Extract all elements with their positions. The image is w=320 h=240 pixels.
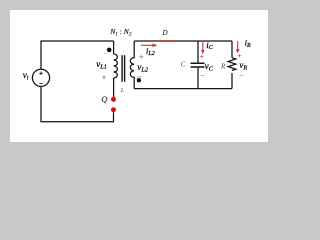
current arrow iR [236,41,240,53]
svg-text:+: + [102,73,107,82]
resistor R top lead [231,41,233,58]
svg-text:L: L [120,87,125,94]
capacitor C branch bottom lead [197,68,199,89]
svg-text:vC: vC [205,61,214,73]
polarity dot primary [107,48,112,53]
current arrow iL2 [141,43,158,47]
resistor R zigzag [228,58,236,71]
capacitor C branch top lead [197,41,199,63]
wire left-bottom rail [41,86,114,121]
svg-text:R: R [220,62,226,70]
svg-text:C: C [181,60,187,69]
svg-text:N1 : N2: N1 : N2 [109,27,132,37]
wire left-top rail [41,41,114,69]
svg-text:−: − [103,49,108,58]
wire primary top lead [113,41,115,54]
resistor R bottom lead [231,73,233,89]
transformer core [122,55,125,81]
wire secondary top rail [134,40,158,42]
wire top rail after diode [177,40,232,42]
svg-text:iL2: iL2 [146,46,155,57]
wire primary bottom lead [113,78,115,97]
source plus mark [39,72,42,75]
svg-text:vi: vi [23,70,29,82]
diode D red segment [158,40,177,42]
inductor primary winding L1 [114,54,118,78]
svg-text:+: + [237,51,241,60]
switch Q dot lower [111,107,116,112]
svg-text:Q: Q [101,94,107,104]
svg-text:+: + [139,53,144,62]
voltage source vi [32,69,49,86]
svg-text:−: − [200,71,204,80]
svg-text:−: − [239,71,243,80]
polarity dot secondary [137,78,141,82]
capacitor C plates [191,63,205,67]
inductor secondary winding L2 [130,41,134,89]
svg-text:iR: iR [245,38,251,49]
source minus mark [39,82,42,84]
svg-text:D: D [162,29,168,37]
wire secondary bottom rail [134,88,232,90]
switch Q dot upper [111,97,116,102]
svg-text:−: − [137,72,142,81]
current arrow iC [201,41,205,54]
svg-text:vL1: vL1 [96,59,107,71]
svg-text:+: + [200,52,204,61]
